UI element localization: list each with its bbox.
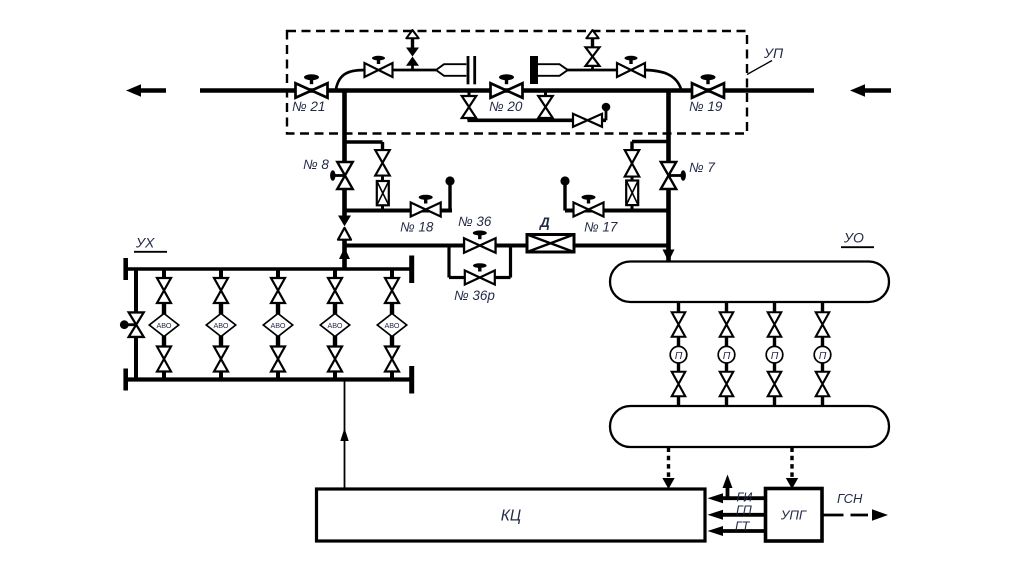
wire: collector line right [565,209,669,213]
wire: УХ bottom header [126,377,412,381]
flow device Д (orifice box) [527,235,574,253]
wire: КЦ to УХ line with up arrow [344,381,346,489]
АВО branch 2 upper valve [219,269,223,279]
wire: bypass branch left top [343,140,383,143]
wire: УХ top header [126,267,412,271]
АВО branch 1 lower valve [162,336,166,348]
svg-text:П: П [819,350,827,362]
branch restrictor right (rect with X) [631,177,634,181]
valve № 7 [661,162,677,189]
svg-text:АВО: АВО [385,321,400,330]
block КЦ (compressor shop) [317,489,706,541]
УХ bottom header cap right [409,366,414,394]
wire: recycle line segment a [345,244,465,248]
svg-text:ГИ: ГИ [737,491,753,505]
air cooler АВО 4 (diamond) [333,303,337,315]
svg-text:№ 21: № 21 [292,99,325,114]
arrow ГТ (fuel gas) УПГ to КЦ [722,529,766,533]
svg-text:УХ: УХ [135,235,155,251]
svg-text:АВО: АВО [328,321,343,330]
dust collector П3 branch upper valve [773,302,776,313]
air cooler АВО 2 (diamond) [219,303,223,315]
dust collector П4 (circle) [821,337,824,347]
svg-text:П: П [723,350,731,362]
flow arrow out (left) [140,88,166,93]
dashed link УО to УПГ with arrow [790,448,793,480]
dust collector П1 (circle) [677,337,680,347]
valve № 36 [464,238,496,253]
АВО branch 2 lower valve [219,336,223,348]
air cooler АВО 1 (diamond) [162,303,166,315]
pig trap launcher (right) body [538,64,568,76]
impulse stub with dot (right) [563,186,566,211]
svg-text:№ 18: № 18 [400,220,434,235]
svg-text:ГСН: ГСН [837,491,863,506]
block УПГ (gas preparation unit) [766,489,823,542]
АВО branch 5 upper valve [390,269,394,279]
wire: recycle line segment b [496,244,528,248]
svg-text:№ 20: № 20 [489,99,523,114]
drain valve left of № 20 [468,93,471,97]
svg-text:КЦ: КЦ [501,508,521,525]
АВО branch 4 upper valve [333,269,337,279]
УО inlet manifold (top drum) [610,262,889,303]
impulse stub with dot (left) [448,186,451,211]
УО outlet manifold (bottom drum) [610,406,889,447]
label УП with leader [747,61,772,75]
valve № 17 [574,203,604,217]
svg-text:ГП: ГП [736,504,753,518]
УХ top header cap right [409,256,414,284]
svg-text:АВО: АВО [157,321,172,330]
АВО branch 3 upper valve [276,269,280,279]
dust collector П1 branch lower valve [677,363,680,373]
air cooler АВО 3 (diamond) [276,303,280,315]
wire: bypass rise left [336,70,365,89]
wire: right riser upper [666,91,671,163]
dashed link УО to КЦ with arrow [667,448,670,480]
wire: left riser upper [342,91,347,164]
svg-text:ГТ: ГТ [735,520,751,534]
svg-text:УО: УО [843,230,864,246]
dust collector П1 branch upper valve [677,302,680,313]
svg-text:УПГ: УПГ [780,508,807,523]
dust collector П2 (circle) [725,337,728,347]
wire: collector line left [345,209,453,213]
УХ top header cap left [123,258,128,280]
dust collector П3 branch lower valve [773,363,776,373]
wire: УХ left riser [134,269,138,313]
svg-text:№ 19: № 19 [689,99,723,114]
svg-text:Д: Д [539,215,550,230]
УХ inlet valve with knob [129,312,144,337]
arrow ГП (start gas) УПГ to КЦ [722,513,766,517]
drain outlet valve [573,114,602,127]
branch arrow up from ГИ line [726,488,730,498]
АВО branch 1 upper valve [162,269,166,279]
wire: riser № 7 down [666,188,671,247]
svg-text:№ 17: № 17 [584,220,618,235]
valve № 21 [296,83,328,98]
pig trap receiver (left) closure bars [467,56,470,84]
arrow ГСН (self-needs gas) out of УПГ [822,514,844,517]
svg-text:АВО: АВО [271,321,286,330]
svg-text:№ 36р: № 36р [454,288,495,303]
wire: right riser into УО with down arrow [666,247,671,261]
pig trap launcher (right) closed end bar [530,56,538,84]
wire: drain header [468,119,574,123]
air cooler АВО 5 (diamond) [390,303,394,315]
svg-text:АВО: АВО [214,321,229,330]
wire: riser № 8 to junction [342,188,347,216]
vent stack left (valve + open arrow) [411,64,414,70]
branch throttle valve left [375,150,390,176]
flow arrow in (right) [864,88,891,93]
wire: bypass branch right top [632,140,671,143]
АВО branch 5 lower valve [390,336,394,348]
pig trap receiver (left) body [436,64,466,76]
wire: main gas pipeline [200,88,814,93]
arrow ГИ (impulse gas) УПГ to КЦ [722,496,766,500]
bypass valve left [365,63,393,77]
svg-text:П: П [675,350,683,362]
УХ bottom header cap left [123,369,128,391]
branch restrictor left (rect with X) [381,176,384,182]
dust collector П4 branch upper valve [821,302,824,313]
bypass valve right [617,63,645,77]
valve № 19 [692,83,724,98]
svg-text:№ 8: № 8 [303,157,329,172]
drain vent stub with dot [605,111,608,121]
wire: bypass fall right [645,70,681,89]
wire: bypass left to pig trap [393,69,437,72]
valve № 18 [411,203,441,217]
dust collector П2 branch upper valve [725,302,728,313]
check assembly on left riser (filled/open cones) [338,216,351,227]
wire: № 36р bypass loop [447,246,450,278]
svg-text:№ 36: № 36 [458,214,492,229]
АВО branch 4 lower valve [333,336,337,348]
svg-text:№ 7: № 7 [689,160,715,175]
svg-text:УП: УП [763,45,784,61]
node УП boundary (dashed box) [287,31,747,134]
drain valve right of № 20 [544,93,547,97]
branch throttle valve right [625,150,640,177]
wire: recycle line segment c [574,244,669,248]
АВО branch 3 lower valve [276,336,280,348]
wire: pig trap to bypass valve right [568,69,617,72]
vent stack right (valve + open arrow) [591,66,594,70]
dust collector П4 branch lower valve [821,363,824,373]
dust collector П2 branch lower valve [725,363,728,373]
valve № 36р [465,271,495,285]
dust collector П3 (circle) [773,337,776,347]
valve № 20 [491,83,523,98]
svg-text:П: П [771,350,779,362]
valve № 8 [337,162,353,189]
wire: left riser to recycle line [342,240,347,247]
wire: left riser to УХ header with up arrow [342,247,347,269]
